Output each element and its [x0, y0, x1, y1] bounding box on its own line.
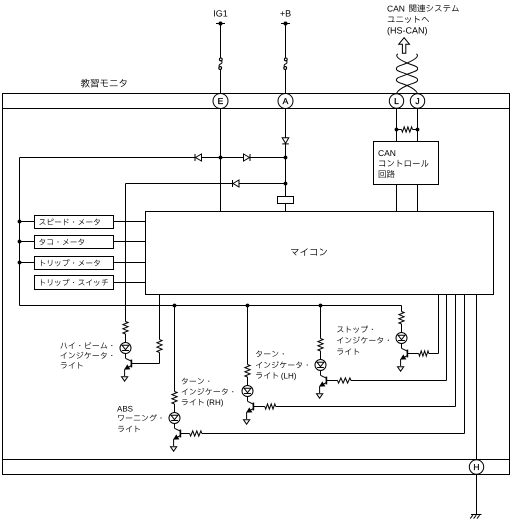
transistor high-beam [125, 354, 127, 359]
wire rail to ABS resistor [174, 306, 176, 392]
wire connector L to CAN control [396, 109, 398, 142]
wire connector J to CAN control [417, 109, 419, 142]
svg-text:CAN: CAN [378, 148, 396, 158]
resistor turn RH base [254, 406, 265, 408]
transistor turn RH [247, 397, 249, 402]
top connector strip line [3, 108, 510, 110]
junction rail / turn LH chain [319, 304, 323, 308]
svg-text:CAN: CAN [387, 4, 405, 14]
box tachometer タコ・メータ [35, 236, 114, 249]
wire rail to trip meter [20, 262, 35, 264]
wire high-beam supply drop [125, 184, 127, 322]
svg-text:ABS: ABS [117, 404, 133, 413]
resistor high-beam base [157, 340, 162, 353]
transistor turn LH [320, 371, 322, 376]
unit box 教習モニタ [3, 94, 510, 475]
wire speedometer to microcomputer [114, 221, 146, 223]
left supply rail [19, 158, 21, 306]
lamp supply rail [20, 305, 402, 307]
label ターン・インジケータ・ライト (RH) [182, 378, 210, 385]
junction rail / ABS chain [173, 304, 177, 308]
wire IG1 to connector E [220, 26, 222, 59]
diode D2 (right) [249, 154, 251, 161]
fuse box on +B line [278, 197, 294, 204]
bottom connector strip line [3, 459, 510, 461]
box microcomputer マイコン [146, 212, 494, 295]
junction +B wire / diode line 1 [284, 156, 288, 160]
wire connector E to microcomputer [220, 109, 222, 212]
wire microcomputer to high-beam base resistor [159, 295, 161, 340]
wire resistor to turn LH lamp [320, 351, 322, 360]
resistor ABS collector [172, 392, 177, 405]
wire ABS base to microcomputer [202, 433, 465, 435]
wire CAN control to microcomputer (J) [417, 185, 419, 212]
junction rail / turn RH chain [246, 304, 250, 308]
wire resistor to turn RH lamp [247, 377, 249, 386]
wire resistor to high-beam lamp [125, 334, 127, 343]
resistor high-beam collector [123, 322, 128, 335]
wire tachometer to microcomputer [114, 241, 146, 243]
resistor stop collector [399, 312, 404, 325]
svg-text:E: E [218, 96, 224, 106]
diode line 1 (y=157) [20, 157, 286, 159]
junction E wire / diode line 1 [219, 156, 223, 160]
wire rail to speedometer [20, 221, 35, 223]
resistor stop base [408, 353, 419, 355]
wire resistor to stop lamp [401, 324, 403, 333]
wire turn LH base to microcomputer [351, 380, 447, 382]
diode D1 (left) [194, 154, 196, 161]
junction +B wire / diode line 2 [284, 182, 288, 186]
diode D3 (left) [232, 180, 234, 187]
connector L [389, 94, 403, 108]
box speedometer スピード・メータ [35, 216, 114, 229]
wire +B to connector A [285, 26, 287, 59]
wire high-beam base [159, 353, 161, 364]
lamp turn indicator RH [242, 386, 253, 397]
inline connector on IG1 wire [219, 58, 222, 61]
transistor ABS [174, 424, 176, 429]
resistor ABS base [181, 433, 190, 435]
svg-text:L: L [394, 96, 399, 106]
wire connector A down [285, 109, 287, 138]
connector A [278, 94, 293, 109]
label ターン・インジケータ・ライト (LH) [256, 350, 284, 357]
terminal +B [281, 23, 290, 25]
wire turn RH base to microcomputer [276, 406, 456, 408]
wire connector H to ground [476, 475, 478, 515]
wire rail corner to stop resistor [401, 306, 403, 312]
svg-text:H: H [473, 462, 479, 472]
connector H [469, 460, 483, 474]
box CAN control circuit [374, 142, 439, 185]
svg-text:J: J [415, 96, 419, 106]
wire stop base to microcomputer [429, 353, 439, 355]
svg-text:A: A [283, 96, 289, 106]
lamp high-beam indicator [120, 343, 131, 354]
connector J [410, 94, 424, 108]
inline connector on +B wire [284, 58, 287, 61]
box trip meter トリップ・メータ [35, 257, 114, 270]
label ストップ・インジケータ・ライト [337, 326, 373, 333]
ground (chassis) [471, 514, 482, 516]
resistor turn RH collector [245, 365, 250, 378]
lamp ABS warning [169, 413, 180, 424]
terminating resistor between CAN lines [397, 129, 402, 131]
wire resistor to ABS lamp [174, 404, 176, 413]
transistor stop [401, 344, 403, 349]
diode line 2 (y=183) [126, 183, 286, 185]
wire trip switch to microcomputer [114, 282, 146, 284]
arrow to CAN system (up) [399, 38, 410, 54]
wire rail to turn LH resistor [320, 306, 322, 339]
terminal IG1 [216, 23, 225, 25]
lamp stop indicator [396, 333, 407, 344]
svg-text:+B: +B [280, 9, 291, 19]
wire trip meter to microcomputer [114, 262, 146, 264]
box trip switch トリップ・スイッチ [35, 276, 114, 290]
twisted pair CAN-H/CAN-L [396, 54, 417, 94]
svg-text:IG1: IG1 [213, 9, 228, 19]
svg-text:(LH): (LH) [281, 372, 297, 381]
svg-text:(RH): (RH) [207, 398, 224, 407]
wire CAN control to microcomputer (L) [396, 185, 398, 212]
label ハイ・ビーム・インジケータ・ライト [60, 342, 112, 349]
resistor turn LH base [327, 380, 338, 382]
label 教習モニタ (training monitor) [81, 79, 127, 88]
diode on +B line (down) [282, 138, 289, 144]
wire rail to tachometer [20, 241, 35, 243]
wire rail to turn RH resistor [247, 306, 249, 365]
svg-text:(HS-CAN): (HS-CAN) [387, 26, 428, 36]
wire microcomputer to connector H [476, 295, 478, 461]
connector E [213, 94, 228, 109]
lamp turn indicator LH [315, 360, 326, 371]
resistor turn LH collector [318, 339, 323, 352]
